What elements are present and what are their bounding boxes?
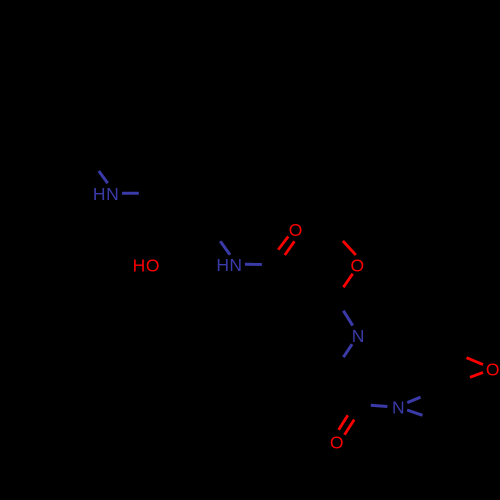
- wire: bond N4-C upper-right half: [407, 397, 420, 402]
- wire: bond N4-C lower-right half: [407, 410, 422, 415]
- svg-text:N: N: [229, 255, 242, 275]
- svg-text:H: H: [93, 184, 106, 204]
- svg-text:H: H: [216, 255, 229, 275]
- wire: C=O carbonyl 1 double bond red halves: [278, 237, 288, 250]
- wire: bond O4-C epoxide lower half: [470, 372, 483, 377]
- wire: bond C-O2 ether upper half: [343, 241, 356, 255]
- hydroxyl O label HO: [133, 256, 160, 276]
- svg-text:O: O: [146, 256, 160, 276]
- wire: bond C-N2 half into amide N2: [220, 241, 230, 255]
- wire: bond C-N3 upper half: [343, 311, 352, 326]
- wire: C=O carbonyl 2 double bond red halves: [339, 415, 348, 430]
- svg-text:O: O: [486, 359, 500, 379]
- wire: bond N1-C right half-bond: [122, 192, 139, 195]
- amide N2 label HN: [216, 255, 242, 275]
- wire: bond C(=O)-N4 half-bond: [371, 405, 388, 406]
- svg-text:N: N: [392, 398, 405, 418]
- svg-text:O: O: [350, 256, 364, 276]
- wire: bond C-N1 upper half into amine N1: [99, 171, 108, 183]
- wire: bond N2-C(=O) half-bond: [245, 263, 262, 266]
- svg-text:N: N: [106, 184, 119, 204]
- svg-text:O: O: [289, 220, 303, 240]
- wire: bond O2-C lower half: [343, 274, 352, 288]
- svg-text:O: O: [330, 433, 344, 453]
- amine N1 label HN: [93, 184, 119, 204]
- wire: bond C-O4 epoxide upper half: [467, 358, 484, 365]
- wire: bond N3-C lower half: [343, 344, 352, 357]
- svg-text:H: H: [133, 256, 146, 276]
- svg-text:N: N: [352, 326, 365, 346]
